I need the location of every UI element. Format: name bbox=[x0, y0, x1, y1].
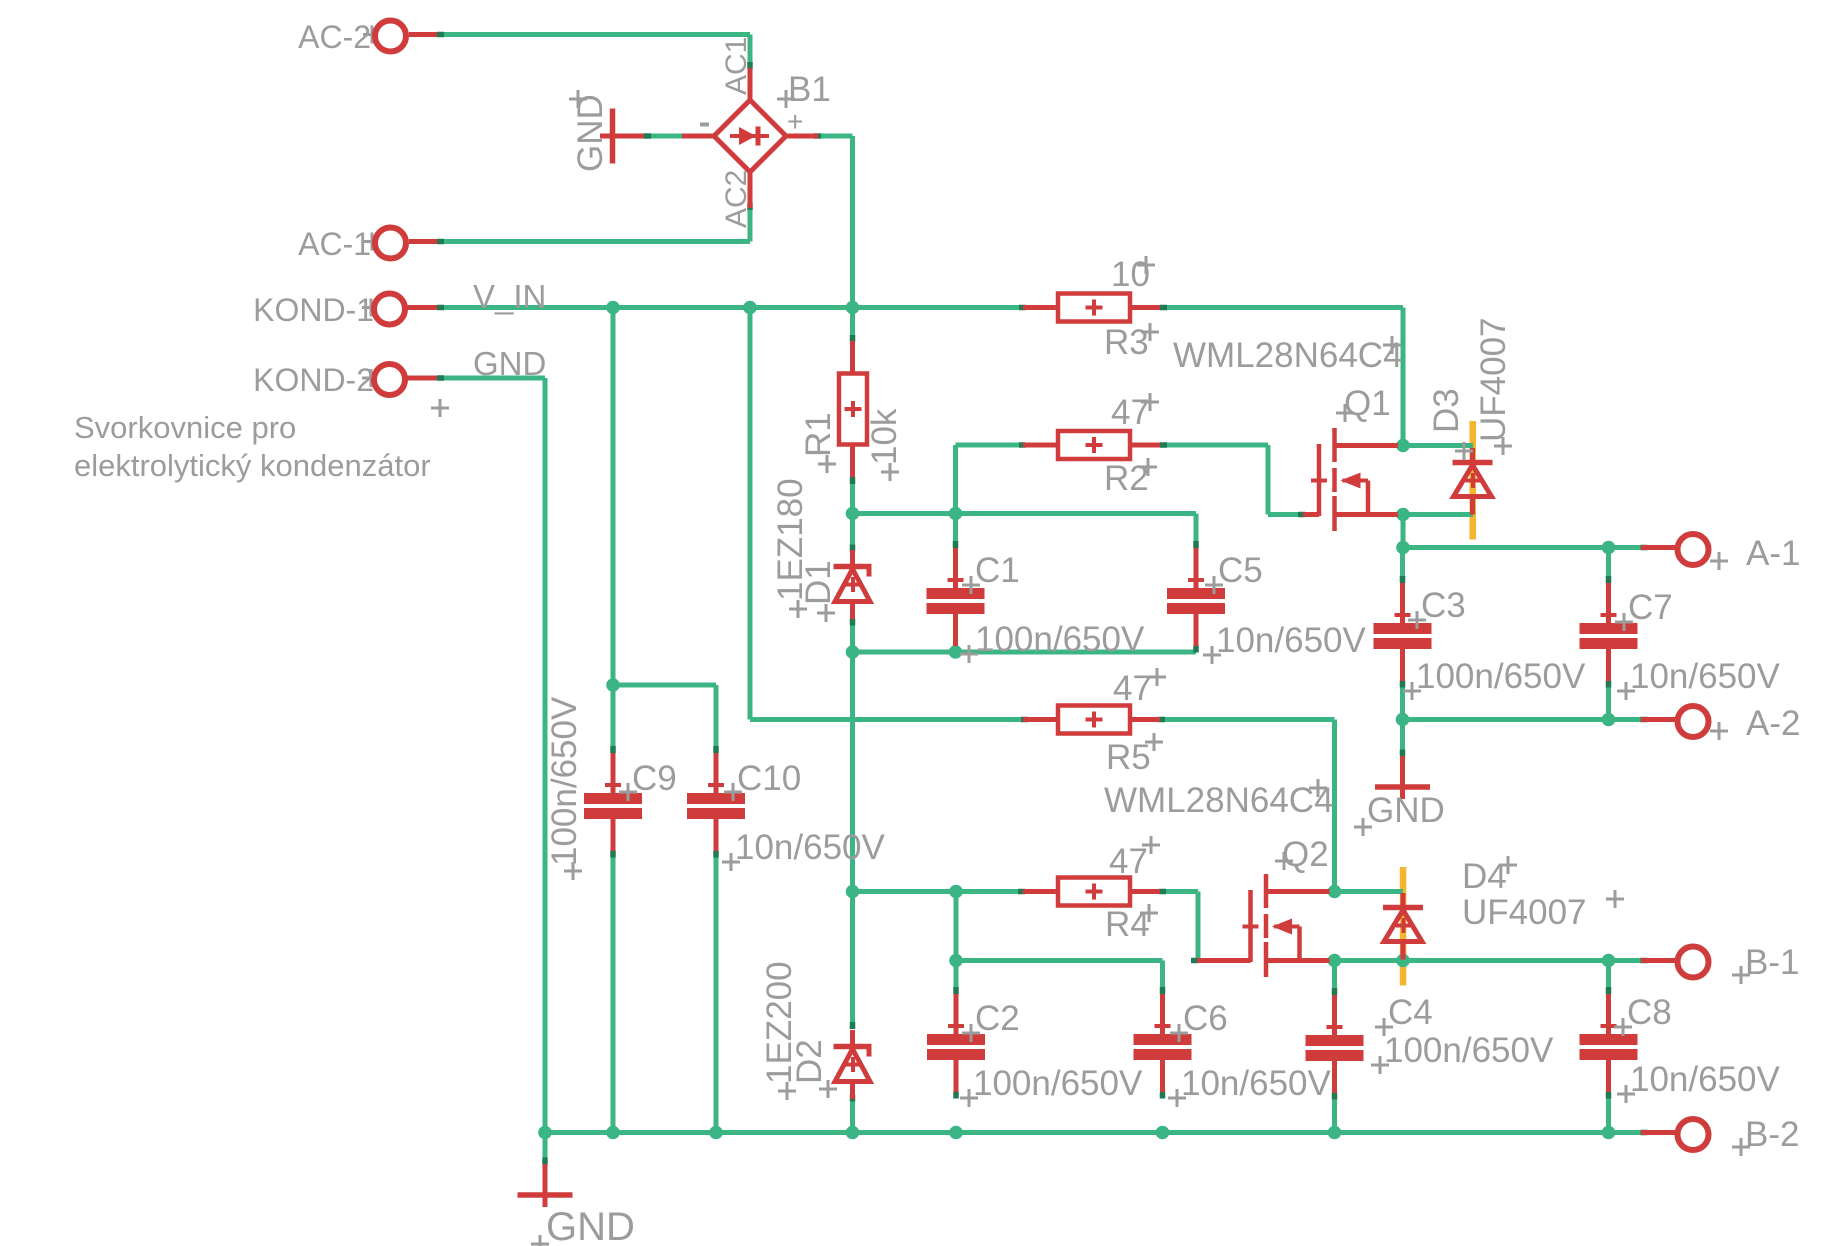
svg-text:C4: C4 bbox=[1388, 993, 1433, 1032]
svg-text:UF4007: UF4007 bbox=[1462, 893, 1587, 932]
svg-text:C6: C6 bbox=[1183, 999, 1228, 1038]
svg-text:AC-2: AC-2 bbox=[298, 19, 371, 55]
svg-text:+: + bbox=[787, 106, 803, 137]
svg-text:10n/650V: 10n/650V bbox=[1630, 1060, 1781, 1099]
svg-text:C1: C1 bbox=[975, 551, 1020, 590]
svg-text:GND: GND bbox=[571, 94, 610, 172]
svg-text:D1: D1 bbox=[799, 560, 838, 605]
svg-text:KOND-1: KOND-1 bbox=[253, 292, 374, 328]
svg-text:C3: C3 bbox=[1421, 586, 1466, 625]
svg-text:B-2: B-2 bbox=[1745, 1115, 1799, 1154]
svg-text:D4: D4 bbox=[1462, 857, 1507, 896]
svg-text:Svorkovnice pro: Svorkovnice pro bbox=[74, 410, 296, 445]
svg-text:AC1: AC1 bbox=[720, 37, 753, 95]
svg-text:Q1: Q1 bbox=[1344, 384, 1391, 423]
svg-text:R3: R3 bbox=[1104, 323, 1149, 362]
svg-text:R5: R5 bbox=[1106, 738, 1151, 777]
svg-text:10n/650V: 10n/650V bbox=[1181, 1064, 1332, 1103]
svg-text:C9: C9 bbox=[632, 759, 677, 798]
svg-text:R2: R2 bbox=[1104, 459, 1149, 498]
svg-text:C2: C2 bbox=[975, 999, 1020, 1038]
svg-text:R4: R4 bbox=[1105, 905, 1150, 944]
svg-text:C5: C5 bbox=[1218, 551, 1263, 590]
svg-text:WML28N64C4: WML28N64C4 bbox=[1173, 336, 1403, 375]
svg-text:GND: GND bbox=[473, 345, 546, 382]
svg-text:100n/650V: 100n/650V bbox=[975, 620, 1145, 659]
svg-text:A-2: A-2 bbox=[1746, 704, 1800, 743]
svg-text:100n/650V: 100n/650V bbox=[545, 696, 584, 866]
svg-text:100n/650V: 100n/650V bbox=[1384, 1031, 1554, 1070]
svg-text:47: 47 bbox=[1109, 842, 1148, 881]
svg-text:D2: D2 bbox=[790, 1039, 829, 1084]
svg-text:AC2: AC2 bbox=[720, 170, 753, 228]
svg-text:10: 10 bbox=[1111, 255, 1150, 294]
svg-text:D3: D3 bbox=[1427, 388, 1466, 433]
svg-text:10n/650V: 10n/650V bbox=[1630, 657, 1781, 696]
svg-text:47: 47 bbox=[1111, 393, 1150, 432]
svg-text:C7: C7 bbox=[1628, 588, 1673, 627]
svg-text:UF4007: UF4007 bbox=[1474, 317, 1513, 442]
svg-text:R1: R1 bbox=[799, 412, 838, 457]
svg-text:C8: C8 bbox=[1627, 993, 1672, 1032]
svg-text:10n/650V: 10n/650V bbox=[735, 828, 886, 867]
svg-text:A-1: A-1 bbox=[1746, 534, 1800, 573]
svg-text:WML28N64C4: WML28N64C4 bbox=[1104, 781, 1334, 820]
svg-text:GND: GND bbox=[1367, 791, 1445, 830]
svg-text:47: 47 bbox=[1113, 669, 1152, 708]
svg-text:V_IN: V_IN bbox=[473, 278, 546, 315]
svg-text:B1: B1 bbox=[788, 70, 831, 109]
svg-text:KOND-2: KOND-2 bbox=[253, 362, 374, 398]
svg-text:100n/650V: 100n/650V bbox=[1416, 657, 1586, 696]
svg-text:10n/650V: 10n/650V bbox=[1216, 621, 1367, 660]
svg-text:elektrolytický kondenzátor: elektrolytický kondenzátor bbox=[74, 448, 431, 483]
svg-text:Q2: Q2 bbox=[1282, 835, 1329, 874]
svg-text:GND: GND bbox=[546, 1205, 635, 1246]
svg-text:100n/650V: 100n/650V bbox=[973, 1064, 1143, 1103]
svg-text:C10: C10 bbox=[737, 759, 801, 798]
svg-text:AC-1: AC-1 bbox=[298, 226, 371, 262]
svg-text:B-1: B-1 bbox=[1745, 943, 1799, 982]
svg-text:10k: 10k bbox=[865, 408, 904, 465]
